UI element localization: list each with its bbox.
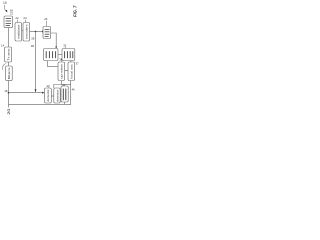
svg-text:14: 14 xyxy=(1,43,5,47)
svg-text:28: 28 xyxy=(31,37,35,41)
svg-text:26: 26 xyxy=(44,17,48,21)
block 34 xyxy=(58,62,65,81)
svg-text:local osc: local osc xyxy=(70,63,74,78)
wire 26 to 30 xyxy=(51,33,57,47)
svg-text:37: 37 xyxy=(76,62,79,66)
block 36 xyxy=(68,62,75,81)
wire feedback down xyxy=(35,32,37,93)
svg-text:10: 10 xyxy=(3,1,7,5)
block 14 xyxy=(5,47,12,62)
block 16 xyxy=(6,66,13,81)
svg-text:up mixer: up mixer xyxy=(60,64,64,78)
wire F down to 36 xyxy=(70,61,72,62)
wire 30 down to 34 xyxy=(47,61,57,67)
junction xyxy=(8,92,10,94)
wire 34 bottom T xyxy=(54,81,62,88)
wire 44 bottom stub xyxy=(63,102,65,104)
wire 22 to 24 xyxy=(22,30,23,32)
label tick above 34 xyxy=(60,59,62,62)
svg-text:filters: filters xyxy=(7,67,11,79)
svg-text:38: 38 xyxy=(31,44,35,48)
block 22 xyxy=(15,23,22,42)
leader arrow from 10 xyxy=(4,5,6,12)
label 16 pointer xyxy=(3,64,6,70)
wire block14 to block16 xyxy=(7,62,9,66)
block 44 xyxy=(61,86,68,102)
junction node xyxy=(35,31,37,33)
svg-text:20: 20 xyxy=(7,109,11,115)
svg-text:encoders: encoders xyxy=(25,24,29,39)
wire block12 to block14 xyxy=(7,28,9,47)
block 12 xyxy=(4,16,13,28)
wire 30 to 32 xyxy=(58,54,62,56)
wire block16 down xyxy=(8,81,10,108)
svg-text:demodul: demodul xyxy=(46,89,50,101)
wire bus to block 40 xyxy=(9,92,43,94)
wire 34 to 36 xyxy=(65,70,68,72)
wire 42 to 44 xyxy=(59,94,62,96)
svg-text:Tx amp: Tx amp xyxy=(6,48,10,60)
block 42 xyxy=(54,88,60,103)
block 30 xyxy=(44,49,59,61)
wire bottom bus xyxy=(9,81,71,105)
svg-text:34: 34 xyxy=(59,57,63,61)
svg-text:FIG. 7: FIG. 7 xyxy=(72,5,77,17)
wire 40 to 42 xyxy=(52,95,54,97)
block 32 xyxy=(62,49,75,61)
svg-text:46: 46 xyxy=(72,88,76,92)
svg-text:modulator: modulator xyxy=(17,25,21,40)
svg-text:18: 18 xyxy=(4,89,8,93)
wire 24 to 26 xyxy=(30,31,43,33)
block 26 xyxy=(43,27,51,39)
block 24 xyxy=(23,23,30,42)
svg-text:detector: detector xyxy=(55,90,59,102)
block 40 xyxy=(45,88,52,103)
wire T right arm xyxy=(61,84,70,86)
svg-text:102: 102 xyxy=(9,9,13,15)
